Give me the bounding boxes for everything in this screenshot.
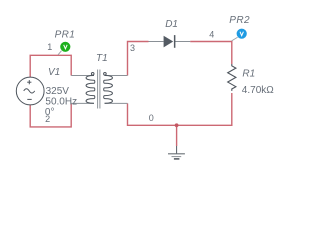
svg-text:T1: T1 xyxy=(96,53,108,64)
svg-text:3: 3 xyxy=(130,43,135,53)
svg-text:PR1: PR1 xyxy=(55,30,76,41)
svg-text:D1: D1 xyxy=(165,19,178,30)
svg-text:R1: R1 xyxy=(242,68,255,79)
svg-text:PR2: PR2 xyxy=(229,15,250,26)
svg-text:2: 2 xyxy=(45,114,50,124)
svg-text:325V: 325V xyxy=(46,86,70,97)
svg-text:4: 4 xyxy=(209,29,214,39)
svg-text:50.0Hz: 50.0Hz xyxy=(45,96,77,107)
svg-text:1: 1 xyxy=(47,42,52,52)
svg-text:0: 0 xyxy=(149,113,154,123)
svg-text:4.70kΩ: 4.70kΩ xyxy=(242,85,274,96)
svg-text:V1: V1 xyxy=(48,67,60,78)
